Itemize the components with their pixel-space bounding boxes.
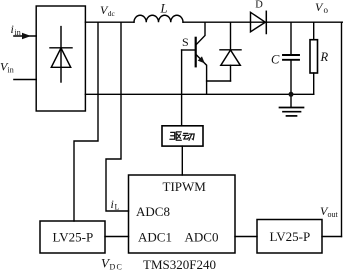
svg-text:TIPWM: TIPWM <box>163 179 207 194</box>
svg-text:in: in <box>15 28 21 37</box>
svg-text:ADC1: ADC1 <box>138 230 172 245</box>
svg-text:in: in <box>8 66 14 75</box>
svg-text:ADC8: ADC8 <box>136 204 170 219</box>
svg-text:dc: dc <box>108 9 116 18</box>
svg-text:o: o <box>324 5 329 15</box>
svg-text:R: R <box>320 50 329 64</box>
svg-text:DC: DC <box>110 263 124 270</box>
svg-text:LV25-P: LV25-P <box>53 230 94 245</box>
svg-text:i: i <box>111 197 114 211</box>
svg-text:D: D <box>255 0 263 11</box>
svg-text:ADC0: ADC0 <box>185 230 219 245</box>
svg-text:S: S <box>182 35 189 49</box>
svg-text:L: L <box>115 203 120 212</box>
svg-text:LV25-P: LV25-P <box>270 229 311 244</box>
svg-text:i: i <box>11 22 14 36</box>
svg-text:out: out <box>328 210 339 219</box>
svg-text:C: C <box>271 53 280 67</box>
svg-text:TMS320F240: TMS320F240 <box>143 257 216 270</box>
svg-text:L: L <box>160 1 168 15</box>
